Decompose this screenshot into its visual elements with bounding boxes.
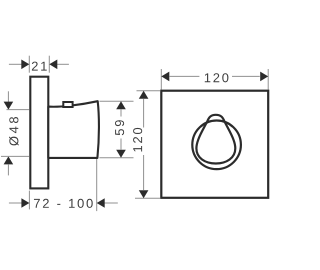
dimension 21: right arrow — [57, 63, 69, 65]
front dim 120 left: label — [133, 128, 142, 152]
front view: escutcheon square — [161, 91, 268, 198]
dimension Ø48: top arrow — [7, 91, 9, 102]
dimension 59: bottom extension line — [99, 157, 133, 159]
dimension 21: left arrow — [9, 63, 22, 65]
side view: handle body — [48, 101, 99, 158]
dimension 72-100: right extension line — [96, 159, 98, 211]
front dim 120 left: extension lines — [137, 90, 161, 92]
dimension 72-100: left arrow — [9, 202, 22, 204]
front dim 120 left: bottom arrow — [139, 190, 149, 198]
front dim 120 top: label — [205, 73, 229, 82]
front dim 120 left: top arrow — [139, 91, 149, 99]
dimension 72-100: label — [34, 199, 93, 208]
dimension 59: top arrow — [116, 101, 126, 109]
dimension 72-100: left extension line — [28, 191, 30, 210]
dimension 21: label — [32, 62, 47, 71]
dimension 21: extension lines — [28, 56, 30, 73]
side view: wall plate — [30, 77, 48, 189]
dimension 59: label — [115, 120, 124, 135]
dimension 59: top extension line — [100, 100, 134, 102]
dimension 72-100: right arrow — [104, 202, 118, 204]
front view: knob drop outline — [196, 115, 235, 164]
dimension Ø48: label — [9, 117, 19, 146]
front view: knob circle — [192, 121, 241, 170]
dimension 59: bottom arrow — [116, 150, 126, 158]
front dim 120 top: extension lines — [160, 69, 162, 90]
front dim 120 top: right arrow — [260, 72, 268, 82]
side view: button on handle — [63, 102, 72, 107]
front dim 120 top: left arrow — [161, 72, 169, 82]
dimension Ø48: bottom extension line — [1, 155, 29, 157]
dimension Ø48: bottom arrow — [4, 156, 14, 164]
dimension Ø48: top extension line — [7, 109, 30, 111]
